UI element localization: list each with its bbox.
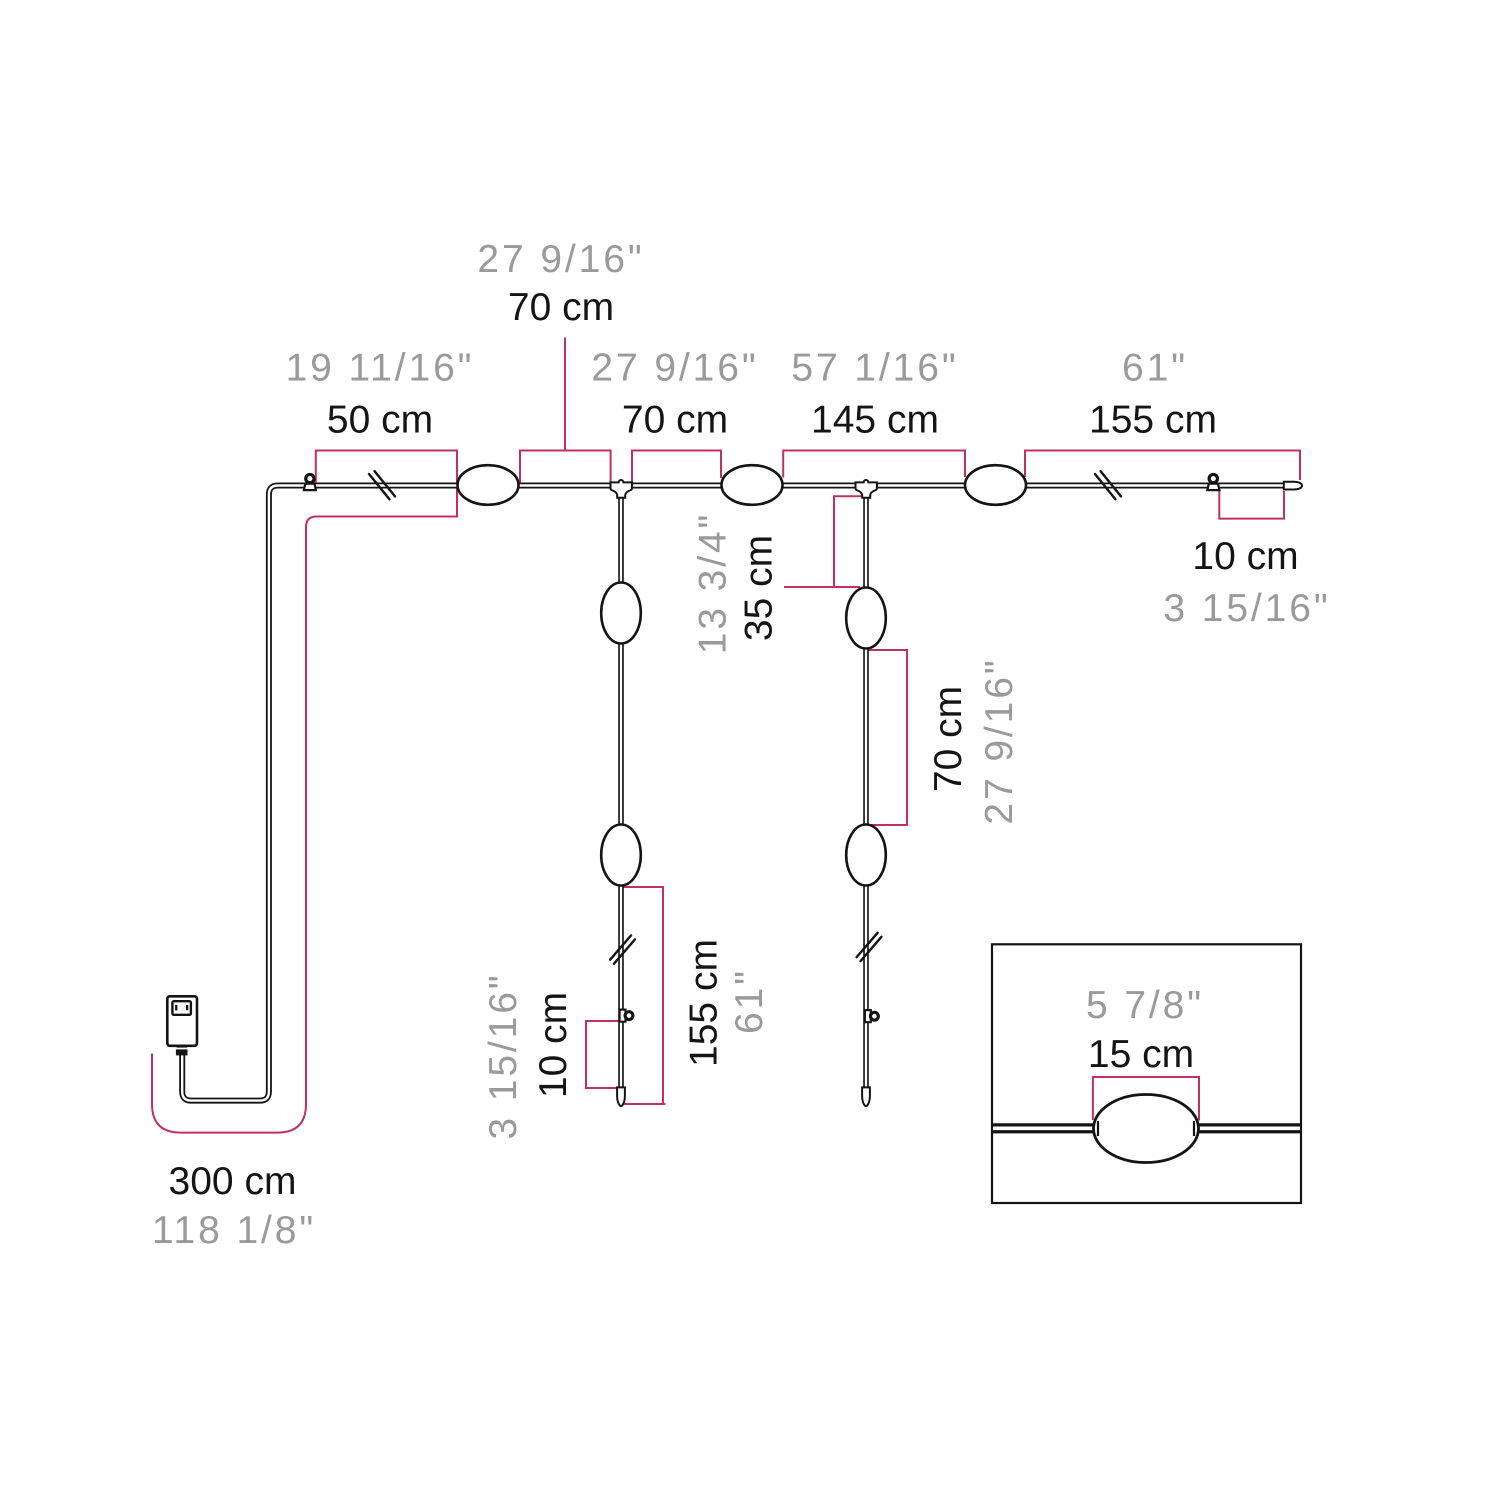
dimension 70cm drop bracket xyxy=(867,650,907,825)
hook drop 2 xyxy=(865,1010,878,1022)
svg-text:300 cm: 300 cm xyxy=(169,1160,297,1203)
wire drop 1 xyxy=(618,490,624,1093)
break slash top 2 xyxy=(1095,471,1121,499)
bulb oval 1 xyxy=(458,465,519,505)
svg-text:118 1/8": 118 1/8" xyxy=(152,1209,316,1252)
bulb oval drop2-b xyxy=(846,825,886,886)
wire drop 2 xyxy=(863,490,869,1093)
hook left top xyxy=(304,475,316,491)
svg-text:3 15/16": 3 15/16" xyxy=(482,972,525,1139)
bulb oval drop2-a xyxy=(846,588,886,649)
svg-text:3 15/16": 3 15/16" xyxy=(1163,587,1330,630)
dimension 35cm bracket xyxy=(784,496,866,587)
dimension 10cm drop box xyxy=(586,1021,621,1088)
wire tip drop 1 xyxy=(617,1087,625,1106)
svg-text:70 cm: 70 cm xyxy=(622,399,728,442)
svg-text:155 cm: 155 cm xyxy=(683,939,726,1067)
svg-text:27 9/16": 27 9/16" xyxy=(477,238,644,281)
dimension 70cm-a bracket xyxy=(520,451,611,484)
bulb oval drop1-a xyxy=(601,583,641,644)
svg-text:15 cm: 15 cm xyxy=(1088,1033,1194,1076)
svg-text:10 cm: 10 cm xyxy=(532,992,575,1098)
svg-text:61": 61" xyxy=(1122,347,1188,390)
svg-text:70 cm: 70 cm xyxy=(927,686,970,792)
T connector 2 xyxy=(856,480,877,498)
hook drop 1 xyxy=(620,1010,633,1022)
wire tip drop 2 xyxy=(862,1087,870,1106)
power plug xyxy=(167,996,197,1055)
dimension 70cm-b bracket xyxy=(632,451,721,484)
svg-text:50 cm: 50 cm xyxy=(327,399,433,442)
dimension 10cm right box xyxy=(1219,489,1284,519)
svg-text:27 9/16": 27 9/16" xyxy=(978,657,1021,824)
svg-text:57 1/16": 57 1/16" xyxy=(791,347,958,390)
main cable: plug to wire end xyxy=(182,486,1290,1101)
svg-text:155 cm: 155 cm xyxy=(1089,399,1217,442)
dimension 155cm bracket xyxy=(1025,451,1300,481)
detail wire end ticks xyxy=(1098,1121,1194,1136)
dimension 145cm bracket xyxy=(783,451,965,478)
break slash drop 2 xyxy=(857,933,882,961)
T connector 1 xyxy=(611,480,632,498)
dimension 155cm drop bracket xyxy=(622,887,666,1104)
svg-text:35 cm: 35 cm xyxy=(738,535,781,641)
bulb oval 2 xyxy=(722,465,783,505)
break slash top 1 xyxy=(369,471,395,499)
hook right top xyxy=(1207,475,1219,491)
svg-text:5 7/8": 5 7/8" xyxy=(1086,984,1204,1027)
detail wire xyxy=(993,1123,1300,1133)
detail oval xyxy=(1094,1095,1199,1163)
svg-text:19 11/16": 19 11/16" xyxy=(286,347,475,390)
bulb oval drop1-b xyxy=(601,825,641,886)
svg-text:13 3/4": 13 3/4" xyxy=(692,512,735,655)
bulb oval 3 xyxy=(965,465,1026,505)
svg-text:10 cm: 10 cm xyxy=(1192,535,1298,578)
dimension 50cm box + 300cm run xyxy=(152,451,457,1133)
dimension 15cm bracket detail xyxy=(1093,1077,1199,1121)
svg-text:70 cm: 70 cm xyxy=(508,286,614,329)
break slash drop 1 xyxy=(610,935,635,963)
leader line 70cm top xyxy=(564,338,566,451)
wire end cap right xyxy=(1284,482,1302,490)
svg-text:27 9/16": 27 9/16" xyxy=(591,347,758,390)
svg-text:145 cm: 145 cm xyxy=(811,399,939,442)
detail box xyxy=(992,944,1301,1203)
svg-text:61": 61" xyxy=(728,968,771,1034)
